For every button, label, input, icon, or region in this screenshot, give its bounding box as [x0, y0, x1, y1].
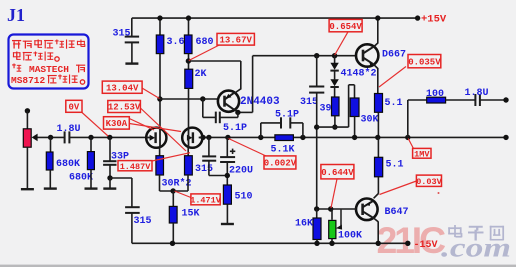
transistor FET1 K30A-a: [146, 128, 166, 148]
capacitor 315 mid-right: [309, 56, 324, 93]
wire 30R join: [160, 175, 189, 191]
svg-text:B647: B647: [385, 207, 409, 218]
node 100K rail dot: [329, 241, 334, 246]
callout 1.471V: [190, 194, 222, 206]
ground under RV1: [21, 188, 34, 190]
svg-text:2N4403: 2N4403: [240, 96, 280, 108]
label +15V: [421, 14, 447, 26]
capacitor 315 top-left: [125, 18, 139, 42]
diode D2 4148: [330, 71, 338, 98]
svg-text:0.002V: 0.002V: [264, 159, 297, 169]
svg-text:0.035V: 0.035V: [408, 57, 441, 67]
ground under 680K right: [85, 187, 98, 189]
node L 39 bottom junction: [332, 124, 337, 129]
svg-text:0.644V: 0.644V: [321, 168, 354, 178]
callout 0.03V leader: [380, 181, 440, 195]
node U source junction: [170, 188, 175, 193]
svg-text:100: 100: [426, 89, 444, 100]
callout 0.002V: [264, 156, 297, 169]
potentiometer 100K: [329, 209, 336, 239]
label D667: [382, 50, 406, 61]
svg-text:D667: D667: [382, 50, 406, 61]
transistor Q1 2N4403: [218, 91, 239, 112]
label 5.1P compensation: [223, 123, 247, 134]
arrow into RV1: [32, 134, 38, 142]
label 1.8U input: [57, 124, 81, 135]
resistor 16K: [313, 209, 321, 240]
svg-text:5.1K: 5.1K: [271, 145, 295, 156]
label 220U: [229, 166, 253, 177]
label 16K: [295, 219, 313, 230]
wire 680 to 2K: [188, 54, 190, 70]
svg-text:1.8U: 1.8U: [465, 88, 489, 99]
label 100: [426, 89, 444, 100]
wire RV1 bottom to ground: [26, 147, 28, 188]
watermark dianziwang: [448, 225, 504, 241]
node R output junction: [375, 135, 380, 140]
transistor FET2 K30A-b: [182, 128, 202, 148]
node V 510 junction: [225, 173, 230, 178]
label 315 bottom-left: [134, 216, 152, 227]
wire 33P to node D: [109, 165, 111, 178]
svg-text:220U: 220U: [229, 166, 253, 177]
svg-text:100K: 100K: [338, 231, 362, 242]
callout 0.002V leader: [229, 139, 267, 157]
node zobel end dot: [503, 97, 508, 102]
note text line2 对地电压。: [13, 52, 59, 62]
node A junction: [48, 135, 53, 140]
wire 680K left to ground: [49, 170, 51, 188]
svg-text:5.1: 5.1: [386, 160, 404, 171]
wire 315 mid bottom: [209, 161, 227, 176]
callout 0.644V leader: [331, 179, 337, 208]
ground under node D: [103, 187, 116, 189]
node 16K rail dot: [314, 241, 319, 246]
resistor 3.6M: [156, 18, 164, 54]
label 315 mid: [195, 164, 213, 175]
resistor 680: [184, 18, 192, 54]
callout 13.67V: [217, 33, 254, 45]
node 680 top: [186, 15, 191, 20]
note box border: [9, 35, 89, 89]
callout 1MV: [413, 148, 431, 159]
svg-text:315: 315: [300, 97, 318, 108]
wire main node: [203, 136, 507, 138]
label J1: [7, 5, 25, 25]
svg-text:1.471V: 1.471V: [190, 196, 222, 206]
resistor 30R left: [156, 156, 164, 175]
resistor 5.1K: [275, 135, 294, 141]
wire D667 base: [253, 55, 356, 57]
callout K30A: [104, 117, 130, 129]
svg-text:315: 315: [134, 216, 152, 227]
resistor 510: [223, 185, 231, 204]
callout 0.644V: [321, 165, 354, 179]
wire 100K to rail: [331, 239, 333, 244]
label -15V: [414, 240, 438, 251]
wire 16K to rail: [316, 240, 318, 244]
svg-text:1MV: 1MV: [414, 150, 430, 160]
wire 100 to 1.8U: [446, 99, 476, 101]
note text line1 所有电压值均为: [12, 40, 85, 49]
node H Q1 collector junction: [235, 110, 240, 115]
capacitor 33P: [103, 137, 116, 164]
capacitor 5.1P compensation: [203, 99, 238, 123]
svg-text:5.1: 5.1: [385, 98, 403, 109]
svg-text:315: 315: [195, 164, 213, 175]
label 510: [235, 192, 253, 203]
callout K30A leader1: [129, 119, 154, 131]
wire Q2 emitter down: [373, 64, 378, 94]
svg-text:5.1P: 5.1P: [223, 123, 247, 134]
label 5.1P feedback: [275, 110, 299, 121]
label 5.1 lower: [386, 160, 404, 171]
callout 12.53V leader: [140, 108, 186, 151]
callout 1MV leader: [408, 139, 414, 150]
callout 0V leader: [82, 113, 108, 137]
wire input vertical: [26, 111, 28, 129]
wire base Q1: [160, 98, 218, 100]
watermark 21IC: [377, 219, 447, 261]
label 30K: [361, 115, 379, 126]
wire zobel up: [408, 100, 427, 137]
callout 13.04V: [102, 81, 142, 93]
node 3.6M top: [157, 15, 162, 20]
svg-text:680K: 680K: [56, 159, 80, 170]
wire 15K to rail: [172, 223, 174, 243]
label 15K: [182, 209, 200, 220]
label 1.8U output: [465, 88, 489, 99]
node N 220U tap: [225, 135, 230, 140]
label 39: [320, 104, 332, 115]
wire Q1 emitter up: [188, 61, 240, 94]
node M 315 tap: [206, 135, 211, 140]
svg-text:30R*2: 30R*2: [162, 178, 192, 190]
node W 16K junction: [314, 206, 319, 211]
wire 1.8U to FET1 gate: [69, 136, 146, 138]
node G 5.1P tap: [200, 96, 205, 101]
svg-text:0V: 0V: [68, 103, 79, 113]
transistor Q3 B647: [356, 199, 378, 221]
node I 315 tap: [314, 53, 319, 58]
node T right end: [503, 135, 508, 140]
resistor 39: [332, 97, 340, 116]
capacitor 220U: [220, 137, 235, 162]
wire node D to 315 cap: [110, 178, 132, 207]
node P 5.1K right: [300, 135, 305, 140]
wire 30K to output node: [354, 117, 356, 138]
label 315 mid-right: [300, 97, 318, 108]
callout 0.035V: [408, 55, 441, 68]
wire 5.1 lower to Q3: [374, 177, 379, 199]
wire FET2 source: [187, 148, 189, 156]
svg-text:12.53V: 12.53V: [108, 103, 141, 113]
diode D1 4148: [330, 56, 338, 71]
label 2N4403: [240, 96, 280, 108]
label 2K: [195, 69, 207, 80]
node input terminal: [25, 108, 30, 113]
wire Q1 collector right: [234, 56, 253, 113]
callout 1.471V leader: [175, 191, 191, 198]
callout 0.654V: [329, 19, 362, 31]
svg-text:0.654V: 0.654V: [329, 22, 362, 32]
note text line3 用 MASTECH 牌: [12, 64, 85, 76]
resistor 5.1 upper: [375, 94, 383, 113]
wire arrow to node A: [37, 136, 64, 138]
resistor 5.1 lower: [375, 137, 383, 176]
label 5.1K: [271, 145, 295, 156]
svg-text:.com: .com: [441, 233, 511, 263]
wire 39 to node K: [334, 116, 336, 127]
ground under 315 top-left: [125, 62, 138, 64]
note text line4 MS8712型测量。: [11, 75, 85, 87]
wire 5.1 upper to output: [377, 112, 379, 137]
callout K30A leader2: [129, 124, 181, 132]
capacitor 315 mid: [202, 137, 216, 160]
node E FET1 drain junction: [157, 96, 162, 101]
svg-text:5.1P: 5.1P: [275, 110, 299, 121]
callout 0.654V leader: [335, 32, 348, 55]
label 3.6M: [167, 37, 191, 48]
label 680: [196, 37, 214, 48]
svg-text:39: 39: [320, 104, 332, 115]
node O 5.1K left: [258, 135, 263, 140]
node Q2 collector rail dot: [375, 15, 380, 20]
resistor 100: [427, 97, 446, 103]
bottom edge strip: [0, 265, 516, 267]
wire 315 mid-right down: [316, 93, 318, 209]
label 315 top-left: [113, 29, 131, 40]
resistor 15K: [169, 191, 177, 223]
svg-text:J1: J1: [7, 5, 25, 25]
callout 1.487V leader: [152, 153, 190, 161]
svg-text:15K: 15K: [182, 209, 200, 220]
label B647: [385, 207, 409, 218]
wire 315 cap to bottom rail: [131, 213, 133, 243]
svg-text:+15V: +15V: [421, 14, 447, 26]
svg-text:680: 680: [196, 37, 214, 48]
svg-text:1.487V: 1.487V: [120, 162, 152, 172]
svg-text:13.04V: 13.04V: [106, 83, 139, 93]
wire +15V top rail: [132, 17, 418, 19]
node F 680-2K junction: [186, 58, 191, 63]
node X 100K junction: [328, 206, 333, 211]
callout 12.53V: [108, 101, 141, 113]
wire 510 to ground: [226, 204, 228, 223]
svg-text:0.03V: 0.03V: [416, 177, 442, 187]
node Q3 collector rail dot: [376, 241, 381, 246]
capacitor 315 bottom-left: [125, 207, 140, 213]
watermark .com: [441, 233, 511, 263]
resistor 30K: [350, 98, 359, 117]
wire Q2 collector to rail: [373, 18, 378, 47]
svg-text:16K: 16K: [295, 219, 313, 230]
resistor 680K right: [87, 137, 94, 169]
svg-text:MS8712: MS8712: [11, 75, 46, 86]
node 15K rail dot: [170, 241, 175, 246]
node J diode tap: [332, 53, 337, 58]
svg-text:-15V: -15V: [414, 240, 438, 251]
svg-text:4148*2: 4148*2: [341, 68, 377, 80]
capacitor 5.1P feedback: [261, 117, 303, 137]
callout 0.035V leader: [379, 67, 406, 88]
svg-text:315: 315: [113, 29, 131, 40]
node C junction 33P tap: [107, 135, 112, 140]
label 4148*2: [341, 68, 377, 80]
ground under 510: [221, 223, 234, 225]
label 30R*2: [162, 178, 192, 190]
callout 0.03V: [416, 175, 442, 187]
capacitor 1.8U input: [65, 131, 70, 143]
wire -15V bottom rail: [132, 242, 408, 244]
capacitor 1.8U output: [475, 94, 480, 106]
callout 13.04V leader: [142, 88, 160, 99]
node D junction: [107, 175, 112, 180]
wire Q3 collector to rail: [373, 217, 379, 243]
wiper arrow 100K: [336, 210, 342, 230]
wire 3.6M to node E: [159, 54, 161, 128]
sensor RV1 (pink element): [23, 129, 31, 147]
resistor 2K: [185, 69, 193, 88]
svg-text:2K: 2K: [195, 69, 207, 80]
wire 315 top-left to ground: [131, 42, 133, 62]
node B junction: [88, 135, 93, 140]
transistor Q2 D667: [356, 44, 378, 66]
label 5.1 upper: [385, 98, 403, 109]
wire 220U bottom: [226, 162, 228, 185]
wire Q3 base: [317, 208, 356, 210]
ground under 680K left: [44, 187, 57, 189]
wire FET1 source: [159, 148, 161, 156]
resistor 680K left: [46, 137, 53, 170]
resistor 30R right: [185, 156, 193, 175]
label 680K left: [56, 159, 80, 170]
node bottom rail end dot: [405, 241, 410, 246]
wire bias link: [317, 85, 355, 127]
node Q 30K bottom: [352, 135, 357, 140]
label 100K: [338, 231, 362, 242]
wire 1.8U to end: [480, 99, 506, 101]
svg-text:30K: 30K: [361, 115, 379, 126]
node FET2 gate dot: [200, 135, 205, 140]
svg-text:13.67V: 13.67V: [219, 35, 252, 45]
svg-text:680K: 680K: [69, 173, 93, 184]
svg-text:MASTECH: MASTECH: [29, 64, 69, 75]
svg-text:1.8U: 1.8U: [57, 124, 81, 135]
wire 2K to FET2 drain: [188, 88, 190, 127]
callout 0V: [66, 100, 82, 112]
node S zobel junction: [405, 135, 410, 140]
wire 680K right to ground: [90, 170, 92, 188]
svg-text:K30A: K30A: [106, 119, 128, 129]
wire node D to ground: [109, 178, 111, 188]
callout 1.487V: [118, 161, 152, 172]
label 680K right: [69, 173, 93, 184]
node K bias junction: [314, 124, 319, 129]
node top rail end dot: [415, 15, 420, 20]
callout 13.67V leader: [189, 45, 219, 60]
label 33P: [111, 152, 129, 163]
svg-text:510: 510: [235, 192, 253, 203]
